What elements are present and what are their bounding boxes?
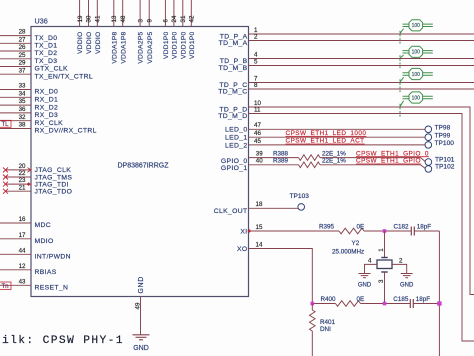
svg-text:TX_D1: TX_D1 xyxy=(35,43,58,50)
wire: VDD1P0 pin 42 (top) xyxy=(190,0,192,27)
IC U36 DP83867IRRGZ body xyxy=(31,17,249,297)
wire: VDDA2P5 pin 9 (top) xyxy=(148,0,150,27)
wire: RX_DV//RX_CTRL pin 38 (left) xyxy=(0,128,31,130)
wire: XI pin 15 xyxy=(249,230,340,232)
svg-text:JTAG_TMS: JTAG_TMS xyxy=(35,174,73,181)
svg-text:1: 1 xyxy=(378,248,385,252)
svg-text:LED_1: LED_1 xyxy=(225,135,248,142)
wire: TD_P_C pin 7 xyxy=(249,82,474,84)
svg-text:TP103: TP103 xyxy=(290,193,310,200)
svg-text:RESET_N: RESET_N xyxy=(35,285,69,292)
wire: TD_P_A pin 1 xyxy=(249,33,474,35)
svg-text:100: 100 xyxy=(412,50,421,56)
svg-text:6: 6 xyxy=(163,19,170,23)
svg-text:27: 27 xyxy=(19,36,26,43)
svg-text:41: 41 xyxy=(95,15,102,22)
testpoint TP101 xyxy=(425,159,432,166)
svg-text:GPIO_0: GPIO_0 xyxy=(221,158,248,165)
svg-text:VDD1P0: VDD1P0 xyxy=(189,31,196,58)
wire: RX_D0 pin 33 (left) xyxy=(0,89,31,91)
svg-text:DP83867IRRGZ: DP83867IRRGZ xyxy=(118,162,170,169)
wire: VDDIO pin 19 (top) xyxy=(79,0,81,27)
svg-text:RX_D3: RX_D3 xyxy=(35,112,59,119)
svg-text:14: 14 xyxy=(256,241,263,248)
svg-text:INT/PWDN: INT/PWDN xyxy=(35,254,71,261)
svg-text:VDD1P0: VDD1P0 xyxy=(180,31,187,58)
wire: TD_M_C pin 8 xyxy=(249,88,474,90)
diff-pair 100-ohm symbol xyxy=(400,20,433,44)
svg-text:R401: R401 xyxy=(320,319,336,326)
wire: RX_D2 pin 35 (left) xyxy=(0,104,31,106)
diff-pair 100-ohm symbol xyxy=(400,92,433,117)
svg-text:MDIO: MDIO xyxy=(35,238,54,245)
svg-text:39: 39 xyxy=(256,151,263,158)
wire: VDDA1P8 pin 13 (top) xyxy=(113,0,115,27)
wire: RX_CLK pin 32 (left) xyxy=(0,120,31,122)
testpoint TP99 xyxy=(425,134,432,141)
wire: VDD1P0 pin 31 (top) xyxy=(182,0,184,27)
no-connect X on JTAG_TDO xyxy=(3,189,8,194)
junction node XI/C182/Y2 xyxy=(383,229,387,233)
svg-text:VDDIO: VDDIO xyxy=(77,32,84,54)
svg-text:DNI: DNI xyxy=(320,326,331,333)
svg-text:GTX_CLK: GTX_CLK xyxy=(35,66,69,73)
svg-text:36: 36 xyxy=(19,106,26,113)
svg-text:40: 40 xyxy=(256,158,263,165)
diff-pair 100-ohm symbol xyxy=(400,68,433,92)
svg-text:47: 47 xyxy=(254,122,261,129)
svg-text:30: 30 xyxy=(86,15,93,22)
net label Tn (left edge) xyxy=(0,282,11,290)
svg-text:45: 45 xyxy=(254,138,261,145)
svg-text:TP99: TP99 xyxy=(435,132,451,139)
svg-text:U36: U36 xyxy=(35,17,48,26)
svg-text:17: 17 xyxy=(19,232,26,239)
svg-text:R400: R400 xyxy=(321,296,337,303)
svg-text:MDC: MDC xyxy=(35,222,52,229)
svg-text:49: 49 xyxy=(135,302,142,309)
svg-text:11: 11 xyxy=(254,106,261,113)
svg-text:VDDIO: VDDIO xyxy=(86,32,93,54)
svg-text:VDD1P0: VDD1P0 xyxy=(172,31,179,58)
resistor R395 0E xyxy=(339,228,364,234)
svg-text:33: 33 xyxy=(19,83,26,90)
svg-text:34: 34 xyxy=(19,90,26,97)
wire: GPIO_0 pin 39 xyxy=(249,157,299,159)
net label TL (left edge) xyxy=(0,120,11,128)
svg-text:VDDA1P8: VDDA1P8 xyxy=(120,31,127,63)
svg-text:23: 23 xyxy=(19,177,26,184)
svg-text:TD_P_B: TD_P_B xyxy=(220,58,248,65)
svg-text:GND: GND xyxy=(400,282,414,288)
svg-text:XO: XO xyxy=(237,246,248,253)
wire: TD_P_B pin 4 xyxy=(249,58,474,60)
crystal Y2 25.000MHz xyxy=(381,257,387,259)
svg-text:CPSW_ETH1_GPIO: CPSW_ETH1_GPIO xyxy=(356,158,421,165)
testpoint TP98 xyxy=(425,126,432,133)
svg-text:4: 4 xyxy=(254,51,258,58)
resistor R401 DNI xyxy=(310,310,316,331)
svg-text:28: 28 xyxy=(19,29,26,36)
wire: crystal pin 2 to ground xyxy=(392,264,407,273)
testpoint TP100 xyxy=(425,142,432,149)
wire xyxy=(421,165,426,169)
wire: MDC pin 16 (left) xyxy=(0,222,31,224)
svg-text:19: 19 xyxy=(77,15,84,22)
svg-text:VDDIO: VDDIO xyxy=(95,32,102,54)
svg-text:48: 48 xyxy=(120,15,127,22)
no-connect X on JTAG_TDI xyxy=(3,182,8,187)
svg-text:31: 31 xyxy=(180,15,187,22)
resistor R400 0E xyxy=(336,301,361,307)
svg-text:2: 2 xyxy=(254,33,258,40)
svg-text:18pF: 18pF xyxy=(416,296,431,303)
wire xyxy=(311,304,313,311)
svg-text:CPSW_ETH1_LED_ACT: CPSW_ETH1_LED_ACT xyxy=(286,138,365,145)
svg-text:16: 16 xyxy=(19,216,26,223)
wire: LED_2 pin 45 xyxy=(249,144,426,146)
svg-text:GPIO_1: GPIO_1 xyxy=(221,165,248,172)
wire: JTAG_TDO pin 21 (left) xyxy=(6,190,32,192)
svg-text:24: 24 xyxy=(171,15,178,22)
svg-text:38: 38 xyxy=(19,122,26,129)
ground (pin 49) xyxy=(133,335,150,340)
marker diamond on JTAG_TDI xyxy=(27,182,31,186)
wire xyxy=(413,303,439,305)
wire: CLK_OUT pin 18 xyxy=(249,207,299,209)
svg-text:18: 18 xyxy=(256,201,263,208)
wire xyxy=(421,158,426,162)
wire: TD_P_D pin 10 xyxy=(249,107,474,295)
diff-pair 100-ohm symbol xyxy=(400,46,433,69)
wire: node to crystal pin 1 xyxy=(384,231,386,258)
svg-text:RX_D1: RX_D1 xyxy=(35,97,59,104)
wire: LED_0 pin 47 xyxy=(249,128,426,130)
wire: TX_D1 pin 27 (left) xyxy=(0,42,31,44)
wire: INT/PWDN pin 44 (left) xyxy=(0,253,31,255)
svg-text:3: 3 xyxy=(137,19,144,23)
wire: MDIO pin 17 (left) xyxy=(0,238,31,240)
wire: TD_M_D pin 11 xyxy=(249,114,474,342)
svg-text:VDDA2P5: VDDA2P5 xyxy=(147,31,154,63)
svg-text:22E_1%: 22E_1% xyxy=(322,158,346,165)
svg-text:RBIAS: RBIAS xyxy=(35,269,57,276)
svg-text:18pF: 18pF xyxy=(417,224,432,231)
svg-text:RX_DV//RX_CTRL: RX_DV//RX_CTRL xyxy=(35,128,97,135)
svg-text:0E: 0E xyxy=(357,224,365,231)
svg-text:CPSW_ETH1_GPIO_0: CPSW_ETH1_GPIO_0 xyxy=(356,150,429,157)
svg-text:TX_D3: TX_D3 xyxy=(35,58,58,65)
svg-text:37: 37 xyxy=(19,67,26,74)
wire: VDD1P0 pin 24 (top) xyxy=(173,0,175,27)
svg-text:RX_CLK: RX_CLK xyxy=(35,120,64,127)
wire: GTX_CLK pin 29 (left) xyxy=(0,66,31,68)
wire: RX_D1 pin 34 (left) xyxy=(0,96,31,98)
svg-text:RX_D2: RX_D2 xyxy=(35,104,59,111)
wire xyxy=(361,303,410,305)
svg-text:TP98: TP98 xyxy=(435,125,451,132)
resistor R389 22E 1% xyxy=(299,162,321,168)
svg-text:VDDA2P5: VDDA2P5 xyxy=(138,31,145,63)
svg-text:13: 13 xyxy=(111,15,118,22)
svg-text:100: 100 xyxy=(412,72,421,78)
svg-text:CPSW_ETH1_LED_1000: CPSW_ETH1_LED_1000 xyxy=(286,130,367,137)
svg-text:100: 100 xyxy=(412,23,421,29)
wire (right vertical bus) xyxy=(438,231,440,356)
svg-text:TX_EN/TX_CTRL: TX_EN/TX_CTRL xyxy=(35,73,94,80)
svg-text:9: 9 xyxy=(146,19,153,23)
svg-text:21: 21 xyxy=(19,184,26,191)
svg-text:46: 46 xyxy=(254,130,261,137)
marker diamond on XI xyxy=(247,229,251,233)
svg-text:RX_D0: RX_D0 xyxy=(35,89,59,96)
wire: RBIAS pin 12 (left) xyxy=(0,269,31,271)
junction node XO/R400/R401 xyxy=(311,302,315,306)
capacitor C185 18pF xyxy=(410,299,413,308)
wire: LED_1 pin 46 xyxy=(249,136,426,138)
svg-text:GND: GND xyxy=(358,282,372,288)
svg-text:25.000MHz: 25.000MHz xyxy=(332,249,364,256)
svg-text:LED_0: LED_0 xyxy=(225,127,248,134)
wire: TX_D0 pin 28 (left) xyxy=(0,35,31,37)
svg-text:GND: GND xyxy=(133,345,149,352)
svg-text:LED_2: LED_2 xyxy=(225,142,248,149)
wire: crystal pin 4 to ground xyxy=(365,264,378,273)
testpoint TP102 xyxy=(425,166,432,173)
svg-text:R388: R388 xyxy=(273,150,289,157)
svg-text:32: 32 xyxy=(19,114,26,121)
svg-text:C182: C182 xyxy=(394,224,410,231)
svg-text:TD_M_B: TD_M_B xyxy=(219,65,248,72)
wire: crystal pin 3 down xyxy=(384,272,386,304)
svg-text:TX_D2: TX_D2 xyxy=(35,50,58,57)
svg-text:VDD1P0: VDD1P0 xyxy=(163,31,170,58)
svg-text:TD_M_C: TD_M_C xyxy=(218,89,247,96)
wire: RX_D3 pin 36 (left) xyxy=(0,112,31,114)
junction node C185/right bus xyxy=(437,301,441,305)
ground (crystal pin 2) xyxy=(401,274,413,278)
ground (crystal pin 4) xyxy=(359,274,371,278)
svg-text:JTAG_TDI: JTAG_TDI xyxy=(35,181,69,188)
junction node Y2 pin3/C185 xyxy=(383,302,387,306)
wire xyxy=(320,164,421,166)
svg-text:15: 15 xyxy=(256,224,263,231)
svg-text:35: 35 xyxy=(19,98,26,105)
svg-text:22E_1%: 22E_1% xyxy=(322,150,346,157)
svg-text:20: 20 xyxy=(19,163,26,170)
svg-text:CLK_OUT: CLK_OUT xyxy=(214,208,248,215)
wire: TD_M_A pin 2 xyxy=(249,40,474,42)
wire: TX_EN/TX_CTRL pin 37 (left) xyxy=(0,73,31,75)
wire: JTAG_TDI pin 23 (left) xyxy=(6,183,32,185)
svg-text:ilk: CPSW PHY-1: ilk: CPSW PHY-1 xyxy=(2,335,124,347)
svg-text:4: 4 xyxy=(368,258,372,265)
svg-text:VDDA1P8: VDDA1P8 xyxy=(111,31,118,63)
svg-text:Tn: Tn xyxy=(2,284,9,290)
wire: TX_D2 pin 26 (left) xyxy=(0,50,31,52)
svg-text:TP100: TP100 xyxy=(435,140,455,147)
svg-text:0E: 0E xyxy=(357,296,365,303)
svg-text:43: 43 xyxy=(19,278,26,285)
wire: VDDA1P8 pin 48 (top) xyxy=(122,0,124,27)
svg-text:JTAG_TDO: JTAG_TDO xyxy=(35,189,73,196)
wire xyxy=(312,303,335,305)
wire: JTAG_TMS pin 22 (left) xyxy=(6,176,32,178)
wire: JTAG_CLK pin 20 (left) xyxy=(6,169,32,171)
capacitor C182 18pF xyxy=(411,227,414,236)
svg-text:R395: R395 xyxy=(319,224,335,231)
wire: VDDIO pin 30 (top) xyxy=(88,0,90,27)
wire: XO pin 14 xyxy=(249,249,313,304)
wire xyxy=(414,230,439,232)
svg-text:C185: C185 xyxy=(393,296,409,303)
no-connect X on JTAG_TMS xyxy=(3,175,8,180)
svg-text:42: 42 xyxy=(189,15,196,22)
svg-text:29: 29 xyxy=(19,60,26,67)
resistor R388 22E 1% xyxy=(299,155,321,161)
svg-text:25: 25 xyxy=(19,52,26,59)
svg-text:TD_M_D: TD_M_D xyxy=(218,113,247,120)
svg-text:Y2: Y2 xyxy=(352,240,360,247)
wire: VDDIO pin 41 (top) xyxy=(96,0,98,27)
wire: RESET_N pin 43 (left) xyxy=(0,284,31,286)
svg-text:GND: GND xyxy=(138,276,145,293)
svg-text:TX_D0: TX_D0 xyxy=(35,35,58,42)
wire: TD_M_B pin 5 xyxy=(249,65,474,67)
wire: VDDA2P5 pin 3 (top) xyxy=(139,0,141,27)
svg-text:TL: TL xyxy=(2,122,10,128)
svg-text:R389: R389 xyxy=(273,158,289,165)
wire xyxy=(364,230,411,232)
svg-text:8: 8 xyxy=(254,82,258,89)
svg-text:XI: XI xyxy=(240,228,247,235)
no-connect X on JTAG_CLK xyxy=(3,167,8,172)
svg-text:100: 100 xyxy=(412,95,421,101)
svg-text:26: 26 xyxy=(19,44,26,51)
testpoint TP103 xyxy=(298,204,305,211)
wire: VDD1P0 pin 6 (top) xyxy=(164,0,166,27)
wire xyxy=(311,331,313,356)
svg-text:5: 5 xyxy=(254,58,258,65)
wire: TX_D3 pin 25 (left) xyxy=(0,58,31,60)
wire: GPIO_1 pin 40 xyxy=(249,164,299,166)
svg-text:TP102: TP102 xyxy=(435,164,455,171)
wire xyxy=(320,157,421,159)
svg-text:44: 44 xyxy=(19,247,26,254)
svg-text:12: 12 xyxy=(19,263,26,270)
svg-text:22: 22 xyxy=(19,170,26,177)
svg-text:2: 2 xyxy=(399,258,403,265)
svg-text:TD_M_A: TD_M_A xyxy=(219,40,248,47)
svg-text:JTAG_CLK: JTAG_CLK xyxy=(35,167,72,174)
wire: GND pin 49 xyxy=(140,297,142,335)
marker arrow on JTAG_CLK xyxy=(28,168,31,173)
